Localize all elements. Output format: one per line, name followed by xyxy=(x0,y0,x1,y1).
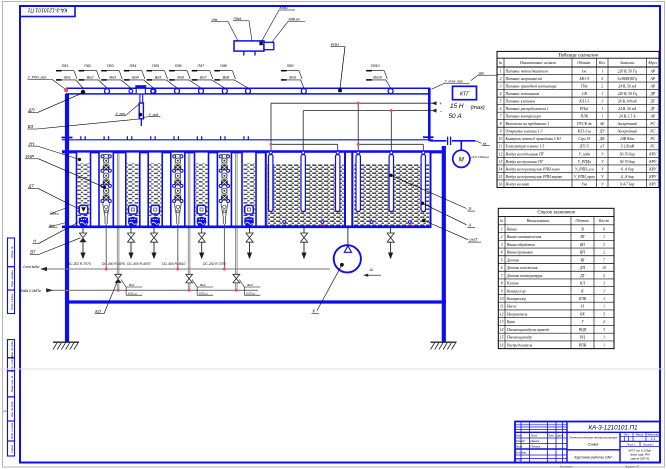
svg-text:13: 13 xyxy=(499,160,503,164)
svg-text:Датчик: Датчик xyxy=(506,258,519,262)
svg-text:Контроллер: Контроллер xyxy=(506,297,526,301)
svg-text:Иванов: Иванов xyxy=(531,439,540,443)
svg-text:Вн1: Вн1 xyxy=(129,283,135,287)
svg-text:1: 1 xyxy=(603,235,605,239)
svg-text:Воздух на перемещение РПН влев: Воздух на перемещение РПН влево xyxy=(506,167,561,171)
svg-text:Петров: Петров xyxy=(531,444,541,448)
svg-text:1: 1 xyxy=(603,343,605,347)
svg-text:Распределитель: Распределитель xyxy=(506,343,533,347)
svg-text:ВЗ: ВЗ xyxy=(28,124,34,129)
label Uv xyxy=(475,141,481,143)
anode dot A xyxy=(421,202,424,205)
svg-text:Пневмоцилиндр на приводе: Пневмоцилиндр на приводе xyxy=(506,328,550,332)
support beam over baths xyxy=(62,139,433,141)
svg-text:КРУ: КРУ xyxy=(648,160,656,164)
svg-text:ПУСК дв: ПУСК дв xyxy=(576,122,592,126)
svg-text:АР: АР xyxy=(649,69,655,73)
svg-text:Схема: Схема xyxy=(588,442,599,446)
svg-text:У_тлж_лев: У_тлж_лев xyxy=(445,80,463,84)
svg-text:11: 11 xyxy=(500,305,504,309)
dot UNT xyxy=(422,219,425,222)
svg-text:У_под: У_под xyxy=(149,113,159,117)
bus drop wires xyxy=(270,103,272,156)
svg-text:У_РПН_лев: У_РПН_лев xyxy=(575,167,594,171)
svg-text:У_подв: У_подв xyxy=(579,152,591,156)
svg-text:Вн3: Вн3 xyxy=(109,76,116,80)
svg-text:15 Н: 15 Н xyxy=(450,103,464,110)
title block left grid xyxy=(520,422,522,463)
beam T-bar right xyxy=(423,136,434,138)
svg-text:Перв. примен.: Перв. примен. xyxy=(10,269,14,287)
svg-text:Кол.: Кол. xyxy=(598,61,606,65)
bus junction red xyxy=(357,102,360,105)
fold line xyxy=(0,368,666,370)
svg-text:Р: Р xyxy=(469,206,472,211)
svg-text:DC-400 R-4970: DC-400 R-4970 xyxy=(102,262,125,266)
svg-text:Пд8: Пд8 xyxy=(220,64,228,68)
svg-text:Н.контр.: Н.контр. xyxy=(516,450,527,454)
KL solenoid valves on shower pipes xyxy=(114,274,122,283)
shower pipes beside racks xyxy=(116,154,118,290)
svg-text:Лист 1: Лист 1 xyxy=(626,443,636,446)
svg-text:Вн7: Вн7 xyxy=(200,76,207,80)
svg-text:У_пов: У_пов xyxy=(116,112,126,116)
svg-text:ДТ: ДТ xyxy=(579,274,585,278)
svg-text:ВО: ВО xyxy=(580,243,585,247)
svg-text:0.4-7 бар: 0.4-7 бар xyxy=(620,182,634,186)
svg-text:4...8 бар: 4...8 бар xyxy=(621,167,634,171)
electrode rods xyxy=(269,155,273,212)
svg-text:Вн10: Вн10 xyxy=(373,76,383,80)
svg-text:РЦП: РЦП xyxy=(578,328,587,332)
svg-text:Воздух на опускание ПТ: Воздух на опускание ПТ xyxy=(506,160,544,164)
svg-text:−: − xyxy=(440,109,443,114)
svg-text:КА-3-1210101.П1: КА-3-1210101.П1 xyxy=(27,7,67,13)
svg-text:Питание чатои двигателя: Питание чатои двигателя xyxy=(505,69,549,73)
svg-text:УНР: УНР xyxy=(26,154,35,159)
svg-text:8: 8 xyxy=(501,282,503,286)
svg-text:Обознач.: Обознач. xyxy=(575,219,589,223)
svg-text:Открытие клапана 1-3: Открытие клапана 1-3 xyxy=(506,130,543,134)
svg-text:дискретный: дискретный xyxy=(618,121,637,126)
svg-text:Пд9: Пд9 xyxy=(287,64,294,68)
svg-text:DC-400 R-4610: DC-400 R-4610 xyxy=(162,262,185,266)
svg-text:ДТ: ДТ xyxy=(28,184,35,189)
svg-text:Масштаб: Масштаб xyxy=(647,433,659,436)
svg-text:Пд4: Пд4 xyxy=(130,64,137,68)
svg-text:12: 12 xyxy=(500,312,504,316)
svg-text:дискретный: дискретный xyxy=(618,129,637,134)
bath bottom line xyxy=(62,226,431,229)
signals table frame xyxy=(497,51,659,187)
svg-text:Курсовая работа САУ: Курсовая работа САУ xyxy=(574,455,612,459)
svg-text:РС: РС xyxy=(649,130,655,134)
svg-text:мана, каф. РК9: мана, каф. РК9 xyxy=(630,453,650,457)
svg-text:РС: РС xyxy=(649,145,655,149)
svg-text:10: 10 xyxy=(500,297,504,301)
svg-text:Пд7: Пд7 xyxy=(197,64,205,68)
svg-text:Температура в ванне 1-5: Температура в ванне 1-5 xyxy=(506,145,545,149)
svg-text:1: 1 xyxy=(603,297,605,301)
bath cell L 76.5 xyxy=(77,152,91,227)
svg-text:Ухв: Ухв xyxy=(581,182,587,186)
drain pipes with valves and arrows xyxy=(82,227,84,233)
svg-text:Изм.: Изм. xyxy=(516,434,522,438)
bath cell L 242.0 xyxy=(242,152,256,227)
svg-text:Пневмоцилиндр: Пневмоцилиндр xyxy=(506,336,532,340)
svg-text:Справ. №: Справ. № xyxy=(10,246,14,258)
svg-text:2: 2 xyxy=(603,320,605,324)
RPN pickup square xyxy=(338,89,342,93)
crane carriage box (top) xyxy=(234,41,264,51)
svg-text:DC-400 R-4970: DC-400 R-4970 xyxy=(127,262,150,266)
svg-text:Вн3: Вн3 xyxy=(247,283,253,287)
svg-text:7: 7 xyxy=(500,115,502,119)
svg-text:2: 2 xyxy=(500,77,502,81)
svg-text:1: 1 xyxy=(500,69,502,73)
svg-text:ДУ: ДУ xyxy=(599,130,605,134)
svg-text:Вн4: Вн4 xyxy=(132,76,139,80)
svg-text:ДР: ДР xyxy=(649,92,655,96)
svg-text:6: 6 xyxy=(500,107,502,111)
svg-text:12: 12 xyxy=(499,152,503,156)
hoist junction dot xyxy=(138,113,142,117)
svg-text:КВВ1: КВВ1 xyxy=(280,6,289,10)
svg-text:3: 3 xyxy=(500,84,502,88)
svg-text:Вн6: Вн6 xyxy=(177,76,184,80)
bath cell L 148.2 xyxy=(148,152,162,227)
title block doc number xyxy=(567,431,660,433)
svg-text:КЛ1-3.ш: КЛ1-3.ш xyxy=(576,130,591,134)
svg-text:ВТ: ВТ xyxy=(30,250,36,255)
svg-text:4: 4 xyxy=(500,92,502,96)
bath cell L 125.8 xyxy=(126,152,140,227)
svg-text:Копировал: Копировал xyxy=(560,464,573,468)
svg-text:Дата: Дата xyxy=(556,435,564,438)
svg-text:Список элементов: Список элементов xyxy=(537,211,575,216)
svg-text:2: 2 xyxy=(501,235,503,239)
svg-text:10: 10 xyxy=(499,137,503,141)
svg-text:РПн1: РПн1 xyxy=(579,107,589,111)
svg-text:7: 7 xyxy=(501,274,503,278)
compressor label Sh xyxy=(364,274,382,276)
svg-text:РПН: РПН xyxy=(331,43,339,47)
svg-text:2: 2 xyxy=(603,251,605,255)
svg-text:3: 3 xyxy=(501,243,503,247)
svg-text:Вода 0.4МПа: Вода 0.4МПа xyxy=(21,289,41,293)
svg-text:Наименование сигнала: Наименование сигнала xyxy=(519,61,556,65)
svg-text:Шт: Шт xyxy=(479,71,485,75)
trolley on rail xyxy=(135,85,146,88)
svg-text:Воздух на перемещение РПН впра: Воздух на перемещение РПН вправо xyxy=(506,175,563,179)
svg-text:№: № xyxy=(498,61,503,65)
drain header line (sliv vody) xyxy=(47,268,330,270)
svg-text:10: 10 xyxy=(602,266,606,270)
beam ticks xyxy=(80,136,82,140)
bath rim xyxy=(62,150,445,153)
water supply line 0.4MPa xyxy=(47,289,258,291)
right bath group (electro baths) xyxy=(266,152,431,227)
svg-text:7: 7 xyxy=(603,258,605,262)
svg-text:1: 1 xyxy=(601,69,603,73)
svg-text:РЦ: РЦ xyxy=(579,336,585,340)
beam T-bar left xyxy=(62,137,73,139)
svg-text:У_РПН_прав: У_РПН_прав xyxy=(574,175,595,179)
svg-text:5: 5 xyxy=(500,100,502,104)
svg-text:9: 9 xyxy=(501,289,503,293)
svg-text:13: 13 xyxy=(500,320,504,324)
svg-text:Н: Н xyxy=(580,305,584,309)
svg-text:5: 5 xyxy=(603,312,605,316)
svg-text:Питание клапанов: Питание клапанов xyxy=(505,100,536,104)
bath cell R 217.4 xyxy=(217,152,231,227)
svg-text:ПЛК: ПЛК xyxy=(578,297,587,301)
svg-text:14: 14 xyxy=(499,167,503,171)
svg-text:Ув: Ув xyxy=(483,142,487,146)
overhead rail xyxy=(66,87,431,89)
wire junction red xyxy=(270,143,273,146)
svg-text:КРУ: КРУ xyxy=(648,152,656,156)
svg-text:Ванна: Ванна xyxy=(507,227,517,231)
svg-text:У_РПН_лев: У_РПН_лев xyxy=(28,76,46,80)
svg-text:КЛ1-3: КЛ1-3 xyxy=(578,100,589,104)
svg-text:Утв.: Утв. xyxy=(516,457,522,461)
svg-text:Ванна гальваническая: Ванна гальваническая xyxy=(507,235,542,239)
svg-text:5: 5 xyxy=(603,274,605,278)
svg-text:Разраб.: Разраб. xyxy=(516,439,526,443)
title block list row xyxy=(620,446,660,448)
bath cell R 170.8 xyxy=(171,152,185,227)
svg-text:АР: АР xyxy=(649,115,655,119)
bath bottom small circles xyxy=(283,221,286,224)
svg-text:Питание контроллера: Питание контроллера xyxy=(505,115,542,119)
svg-text:М: М xyxy=(459,157,464,163)
svg-text:Масса: Масса xyxy=(636,433,644,436)
svg-text:16: 16 xyxy=(500,343,504,347)
svg-text:Пд10: Пд10 xyxy=(371,64,381,68)
svg-text:3: 3 xyxy=(603,328,605,332)
svg-text:Подп. и дата: Подп. и дата xyxy=(10,422,14,439)
svg-text:15: 15 xyxy=(500,336,504,340)
svg-text:5: 5 xyxy=(501,258,503,262)
svg-text:КВВ,вп: КВВ,вп xyxy=(289,18,300,22)
svg-text:Значение: Значение xyxy=(620,61,635,65)
svg-text:ДТ1-5: ДТ1-5 xyxy=(579,145,589,149)
svg-text:КРУ: КРУ xyxy=(648,182,656,186)
svg-text:(max): (max) xyxy=(471,105,485,111)
title block outer xyxy=(515,422,660,463)
svg-text:5-120мВ: 5-120мВ xyxy=(621,145,635,149)
svg-text:№: № xyxy=(4,410,7,413)
svg-text:Листов 1: Листов 1 xyxy=(642,443,654,446)
svg-text:2: 2 xyxy=(601,84,603,88)
svg-text:ПЛК: ПЛК xyxy=(579,115,588,119)
svg-text:(4-П об/мин): (4-П об/мин) xyxy=(472,155,489,159)
svg-text:16: 16 xyxy=(499,182,503,186)
elements table frame xyxy=(498,208,614,348)
svg-text:ДГ: ДГ xyxy=(650,107,656,111)
bottom red dot xyxy=(321,224,324,227)
svg-text:1: 1 xyxy=(601,92,603,96)
svg-text:Подп. и дата: Подп. и дата xyxy=(10,356,14,373)
svg-text:1нс: 1нс xyxy=(582,69,588,73)
svg-text:КЛ: КЛ xyxy=(579,282,585,286)
svg-text:Таблица сигналов: Таблица сигналов xyxy=(558,52,599,59)
right support leg xyxy=(442,146,446,342)
svg-text:Компрессор: Компрессор xyxy=(506,289,526,293)
svg-text:Воздух на подъемник ПТ: Воздух на подъемник ПТ xyxy=(506,152,545,156)
svg-text:ДГ: ДГ xyxy=(650,100,656,104)
svg-text:Инв. № дубл.: Инв. № дубл. xyxy=(10,401,14,417)
svg-text:Адрес: Адрес xyxy=(647,61,658,65)
svg-text:1: 1 xyxy=(603,289,605,293)
svg-text:Подп.: Подп. xyxy=(548,435,555,438)
svg-text:Питание нагревателей: Питание нагревателей xyxy=(505,76,543,81)
svg-text:Пдв1: Пдв1 xyxy=(234,17,242,21)
svg-text:Пд2: Пд2 xyxy=(84,64,91,68)
svg-text:ДП: ДП xyxy=(28,108,36,113)
svg-text:Формат А3: Формат А3 xyxy=(625,464,640,468)
svg-text:24В 90мс: 24В 90мс xyxy=(620,137,635,141)
svg-text:Нагреватель: Нагреватель xyxy=(506,312,528,316)
svg-text:УН: УН xyxy=(29,141,36,146)
svg-text:Пров.: Пров. xyxy=(516,444,523,448)
svg-text:DC-202 R-7070: DC-202 R-7070 xyxy=(68,262,91,266)
svg-text:КРУ: КРУ xyxy=(648,175,656,179)
svg-text:15: 15 xyxy=(499,175,503,179)
svg-text:Инв. № подл.: Инв. № подл. xyxy=(10,340,14,356)
elements table rows xyxy=(498,232,614,234)
svg-text:ДК: ДК xyxy=(599,137,605,141)
svg-text:Наименование: Наименование xyxy=(526,219,550,223)
svg-text:АР: АР xyxy=(649,77,655,81)
bottom red dot xyxy=(346,225,349,228)
svg-text:3: 3 xyxy=(603,243,605,247)
svg-text:11: 11 xyxy=(499,145,503,149)
svg-text:ВП: ВП xyxy=(580,251,585,255)
svg-text:14: 14 xyxy=(500,328,504,332)
svg-text:Технологическая принципиальная: Технологическая принципиальная xyxy=(569,435,617,439)
compressor K xyxy=(347,227,349,246)
svg-text:3: 3 xyxy=(603,282,605,286)
svg-text:DC-202 R-7070: DC-202 R-7070 xyxy=(203,262,226,266)
svg-text:группа СМ7-41: группа СМ7-41 xyxy=(631,457,650,461)
svg-text:Вн1: Вн1 xyxy=(64,76,71,80)
svg-text:Пд5: Пд5 xyxy=(152,64,160,68)
svg-text:КА-3-1210101.П1: КА-3-1210101.П1 xyxy=(588,425,637,432)
svg-text:1: 1 xyxy=(603,305,605,309)
contactor KTG box xyxy=(453,86,477,99)
anode bus line 2 xyxy=(303,110,436,112)
anode bus line 1 xyxy=(271,102,437,104)
svg-text:+: + xyxy=(440,101,443,106)
svg-text:Контроль платы 6 приводами 1-Ю: Контроль платы 6 приводами 1-Ю xyxy=(505,137,561,141)
svg-text:КЛ: КЛ xyxy=(95,309,100,314)
bath cell R 99.0 xyxy=(99,152,113,227)
svg-text:РПН: РПН xyxy=(578,343,587,347)
svg-text:ДП: ДП xyxy=(579,266,585,270)
svg-text:Пдв: Пдв xyxy=(580,84,588,88)
svg-text:Клапан: Клапан xyxy=(506,282,519,286)
motor/pump M unit xyxy=(430,140,447,142)
left margin column stack B xyxy=(8,340,15,358)
signals table rows xyxy=(497,74,659,76)
left margin column stack A xyxy=(8,238,15,267)
svg-text:Удв: Удв xyxy=(212,18,218,22)
svg-text:1:1: 1:1 xyxy=(651,437,656,441)
bottom red dot xyxy=(409,224,412,227)
svg-text:Серг.19: Серг.19 xyxy=(578,137,590,141)
left support leg xyxy=(65,94,69,342)
svg-text:МГТУ им. Н.Э.Бау-: МГТУ им. Н.Э.Бау- xyxy=(628,449,651,453)
svg-text:Вн9: Вн9 xyxy=(289,76,296,80)
svg-text:АР: АР xyxy=(649,84,655,88)
title block lit/massa/masshtab xyxy=(619,432,621,462)
svg-text:5: 5 xyxy=(601,77,603,81)
svg-text:А: А xyxy=(468,223,472,228)
svg-text:Насос: Насос xyxy=(506,305,517,309)
svg-text:Питание источников: Питание источников xyxy=(505,92,540,96)
bus junction red xyxy=(390,109,393,112)
svg-text:9: 9 xyxy=(500,130,502,134)
svg-text:Включение на требование 1: Включение на требование 1 xyxy=(506,122,550,126)
svg-text:9: 9 xyxy=(603,227,605,231)
svg-text:Вн2: Вн2 xyxy=(87,76,94,80)
svg-text:Воздух на хват: Воздух на хват xyxy=(506,182,530,186)
svg-text:6: 6 xyxy=(501,266,503,270)
rail end vertical right xyxy=(428,88,431,141)
svg-text:КЛ1.ш: КЛ1.ш xyxy=(128,291,137,295)
ground symbol right xyxy=(431,341,457,343)
svg-text:Ванна обработки: Ванна обработки xyxy=(507,243,535,247)
svg-text:КЛ2.ш: КЛ2.ш xyxy=(199,291,208,295)
rack funnel drain pipes xyxy=(105,227,107,269)
svg-text:50 А: 50 А xyxy=(449,113,462,120)
svg-text:Датчик температуры: Датчик температуры xyxy=(506,274,543,278)
svg-text:1: 1 xyxy=(501,227,503,231)
title block name cell xyxy=(567,449,620,451)
compressor dot xyxy=(340,263,344,267)
stand horizontal bar xyxy=(65,300,446,303)
svg-text:Вн8: Вн8 xyxy=(223,76,230,80)
rollers on rail xyxy=(105,89,110,94)
svg-text:Пд6: Пд6 xyxy=(175,64,183,68)
svg-text:КТГ: КТГ xyxy=(460,91,470,97)
svg-text:Слив воды: Слив воды xyxy=(23,265,40,269)
svg-text:Взам. инв. №: Взам. инв. № xyxy=(10,376,14,392)
svg-text:У_РПДв: У_РПДв xyxy=(578,160,592,164)
svg-text:№: № xyxy=(499,219,504,223)
position sensor DP dot xyxy=(81,90,85,94)
svg-text:Вн2: Вн2 xyxy=(200,283,206,287)
svg-text:1: 1 xyxy=(601,107,603,111)
svg-text:Датчик положения: Датчик положения xyxy=(506,266,538,270)
node rail left end (red) xyxy=(64,88,68,92)
svg-text:8: 8 xyxy=(500,122,502,126)
svg-text:Ванна промывки: Ванна промывки xyxy=(507,251,533,255)
svg-text:Подп. и дата: Подп. и дата xyxy=(10,293,14,310)
svg-text:РС: РС xyxy=(649,137,655,141)
corner stamp box xyxy=(20,6,75,17)
svg-text:Пд3: Пд3 xyxy=(107,64,115,68)
svg-text:КРУ: КРУ xyxy=(648,167,656,171)
svg-text:К: К xyxy=(580,289,584,293)
svg-text:50-70 бар: 50-70 бар xyxy=(620,152,635,156)
svg-text:1: 1 xyxy=(601,115,603,119)
svg-text:ЕК1-5: ЕК1-5 xyxy=(578,77,589,81)
svg-text:3: 3 xyxy=(601,100,603,104)
svg-text:Питание распределителя 1: Питание распределителя 1 xyxy=(505,107,549,111)
